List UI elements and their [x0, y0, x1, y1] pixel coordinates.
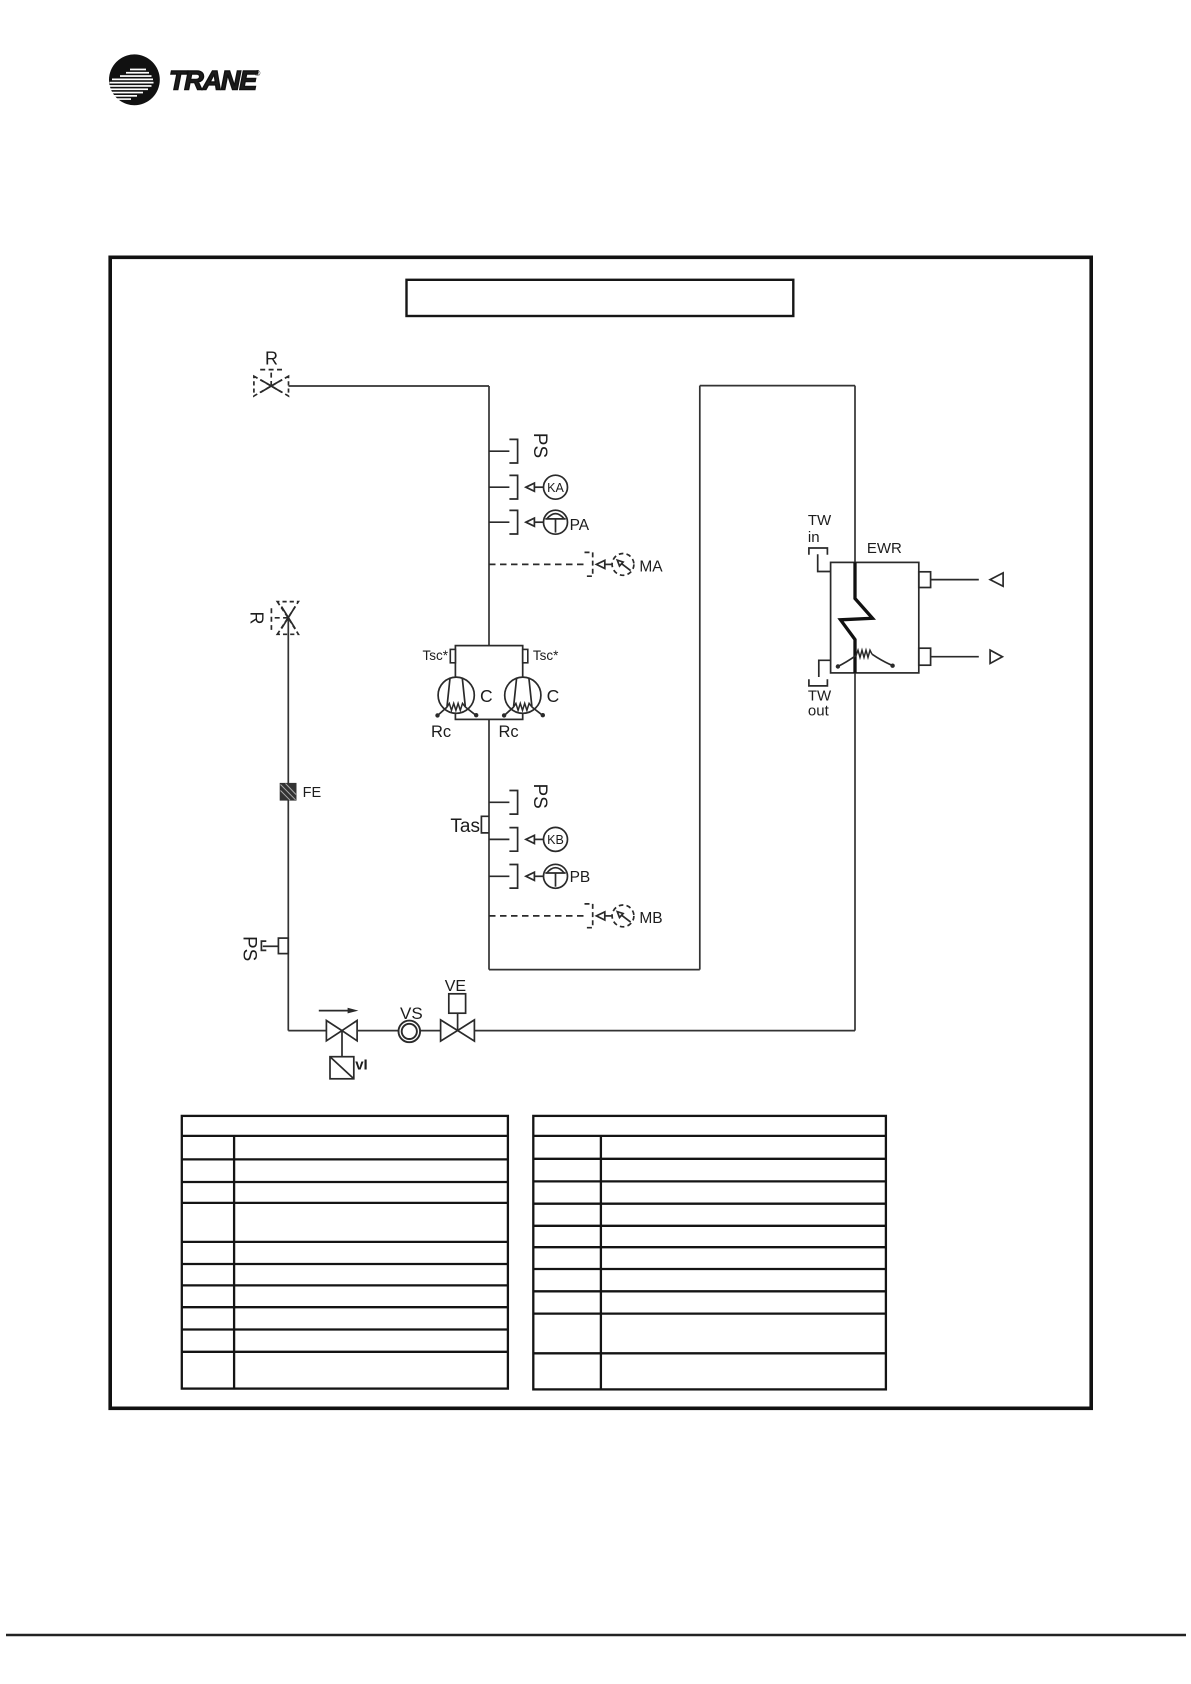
compressor C right [502, 677, 545, 718]
valve R lower (vertical) [271, 602, 298, 635]
svg-text:Rc: Rc [499, 723, 519, 741]
water outlet arrow [990, 650, 1002, 663]
svg-text:TW: TW [808, 512, 832, 529]
sensor pocket Tsc* right [523, 649, 528, 662]
sensor Tas bracket [481, 816, 489, 833]
svg-text:EWR: EWR [867, 540, 902, 557]
EWR water stub bottom [919, 648, 931, 665]
svg-text:PB: PB [570, 869, 591, 886]
footer rule [6, 1634, 1186, 1636]
svg-text:R: R [265, 349, 278, 369]
sensor TW in [809, 548, 831, 572]
svg-text:Tas: Tas [450, 816, 480, 837]
thermostat PA [489, 510, 568, 534]
compressor C left [435, 677, 478, 718]
wire discharge top-left [289, 385, 490, 387]
svg-text:out: out [808, 702, 830, 719]
water outlet line [931, 656, 979, 658]
pressure switch PS (low, circuit B) [489, 791, 518, 815]
EWR water stub top [919, 572, 931, 588]
wire riser lower [488, 719, 490, 969]
gauge MA (optional, dashed) [489, 552, 634, 576]
sensor pocket Tsc* left [450, 649, 455, 662]
pressure switch PS (left) [261, 938, 288, 954]
gauge MB (optional, dashed) [489, 904, 634, 928]
svg-text:PS: PS [529, 784, 550, 809]
compressor manifold box [455, 646, 522, 720]
wire riser upper [488, 386, 490, 646]
sight glass VS [399, 1021, 421, 1043]
svg-text:KA: KA [547, 481, 564, 495]
pressure switch PS (high, circuit A) [489, 439, 518, 463]
wire bottom right [475, 1030, 855, 1032]
svg-text:C: C [547, 686, 560, 706]
water inlet arrow [990, 573, 1003, 586]
expansion valve VI [326, 1021, 357, 1079]
wire EWR down to box [854, 386, 856, 563]
svg-text:C: C [480, 686, 493, 706]
svg-text:MB: MB [639, 910, 662, 927]
wire bottom left [288, 1030, 326, 1032]
filter FE [280, 783, 297, 801]
EWR antifreeze heater [839, 650, 892, 666]
wire bottom VS segments [358, 1030, 441, 1032]
wire loop top [700, 385, 855, 387]
title box [407, 280, 794, 316]
valve R top [254, 370, 289, 396]
svg-text:Rc: Rc [431, 723, 451, 741]
svg-text:MA: MA [639, 558, 663, 575]
wire loop left vertical [699, 386, 701, 970]
flow arrow [319, 1008, 359, 1014]
svg-text:PS: PS [529, 433, 550, 458]
solenoid valve VE [441, 994, 475, 1041]
legend table right [533, 1116, 886, 1390]
svg-text:TRANE: TRANE [169, 66, 258, 96]
svg-text:VE: VE [445, 978, 466, 995]
wire liquid line left vertical [287, 618, 289, 1031]
Trane wordmark [169, 66, 261, 96]
svg-text:in: in [808, 529, 820, 546]
wire EWR box to bottom [854, 673, 856, 1031]
relay KB [489, 827, 568, 851]
svg-text:Tsc*: Tsc* [533, 648, 559, 663]
sensor TW out [809, 660, 831, 686]
svg-text:FE: FE [303, 785, 322, 801]
svg-text:KB: KB [547, 833, 564, 847]
svg-text:®: ® [255, 69, 261, 78]
outer diagram frame [110, 257, 1091, 1408]
Trane logo circle [109, 54, 160, 105]
wire loop bottom [489, 969, 700, 971]
svg-text:PS: PS [238, 936, 259, 961]
legend table left [182, 1116, 508, 1389]
heat exchanger EWR box [831, 562, 919, 673]
svg-text:PA: PA [570, 517, 590, 534]
svg-text:Tsc*: Tsc* [422, 648, 448, 663]
EWR refrigerant zigzag [841, 562, 873, 673]
thermostat PB [489, 864, 568, 888]
svg-text:R: R [247, 612, 267, 625]
svg-text:vI: vI [355, 1057, 368, 1074]
relay KA [489, 475, 568, 499]
water inlet line [931, 579, 979, 581]
